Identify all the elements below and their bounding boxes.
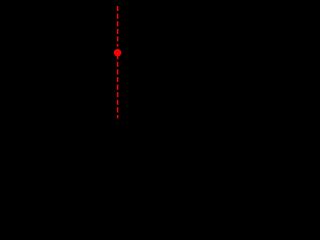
wire: lower red dashed vertical segment bbox=[117, 49, 119, 118]
chart marker overlay bbox=[0, 0, 260, 132]
node A: red point marker bbox=[114, 49, 121, 56]
wire: upper red dashed vertical segment bbox=[117, 6, 119, 47]
